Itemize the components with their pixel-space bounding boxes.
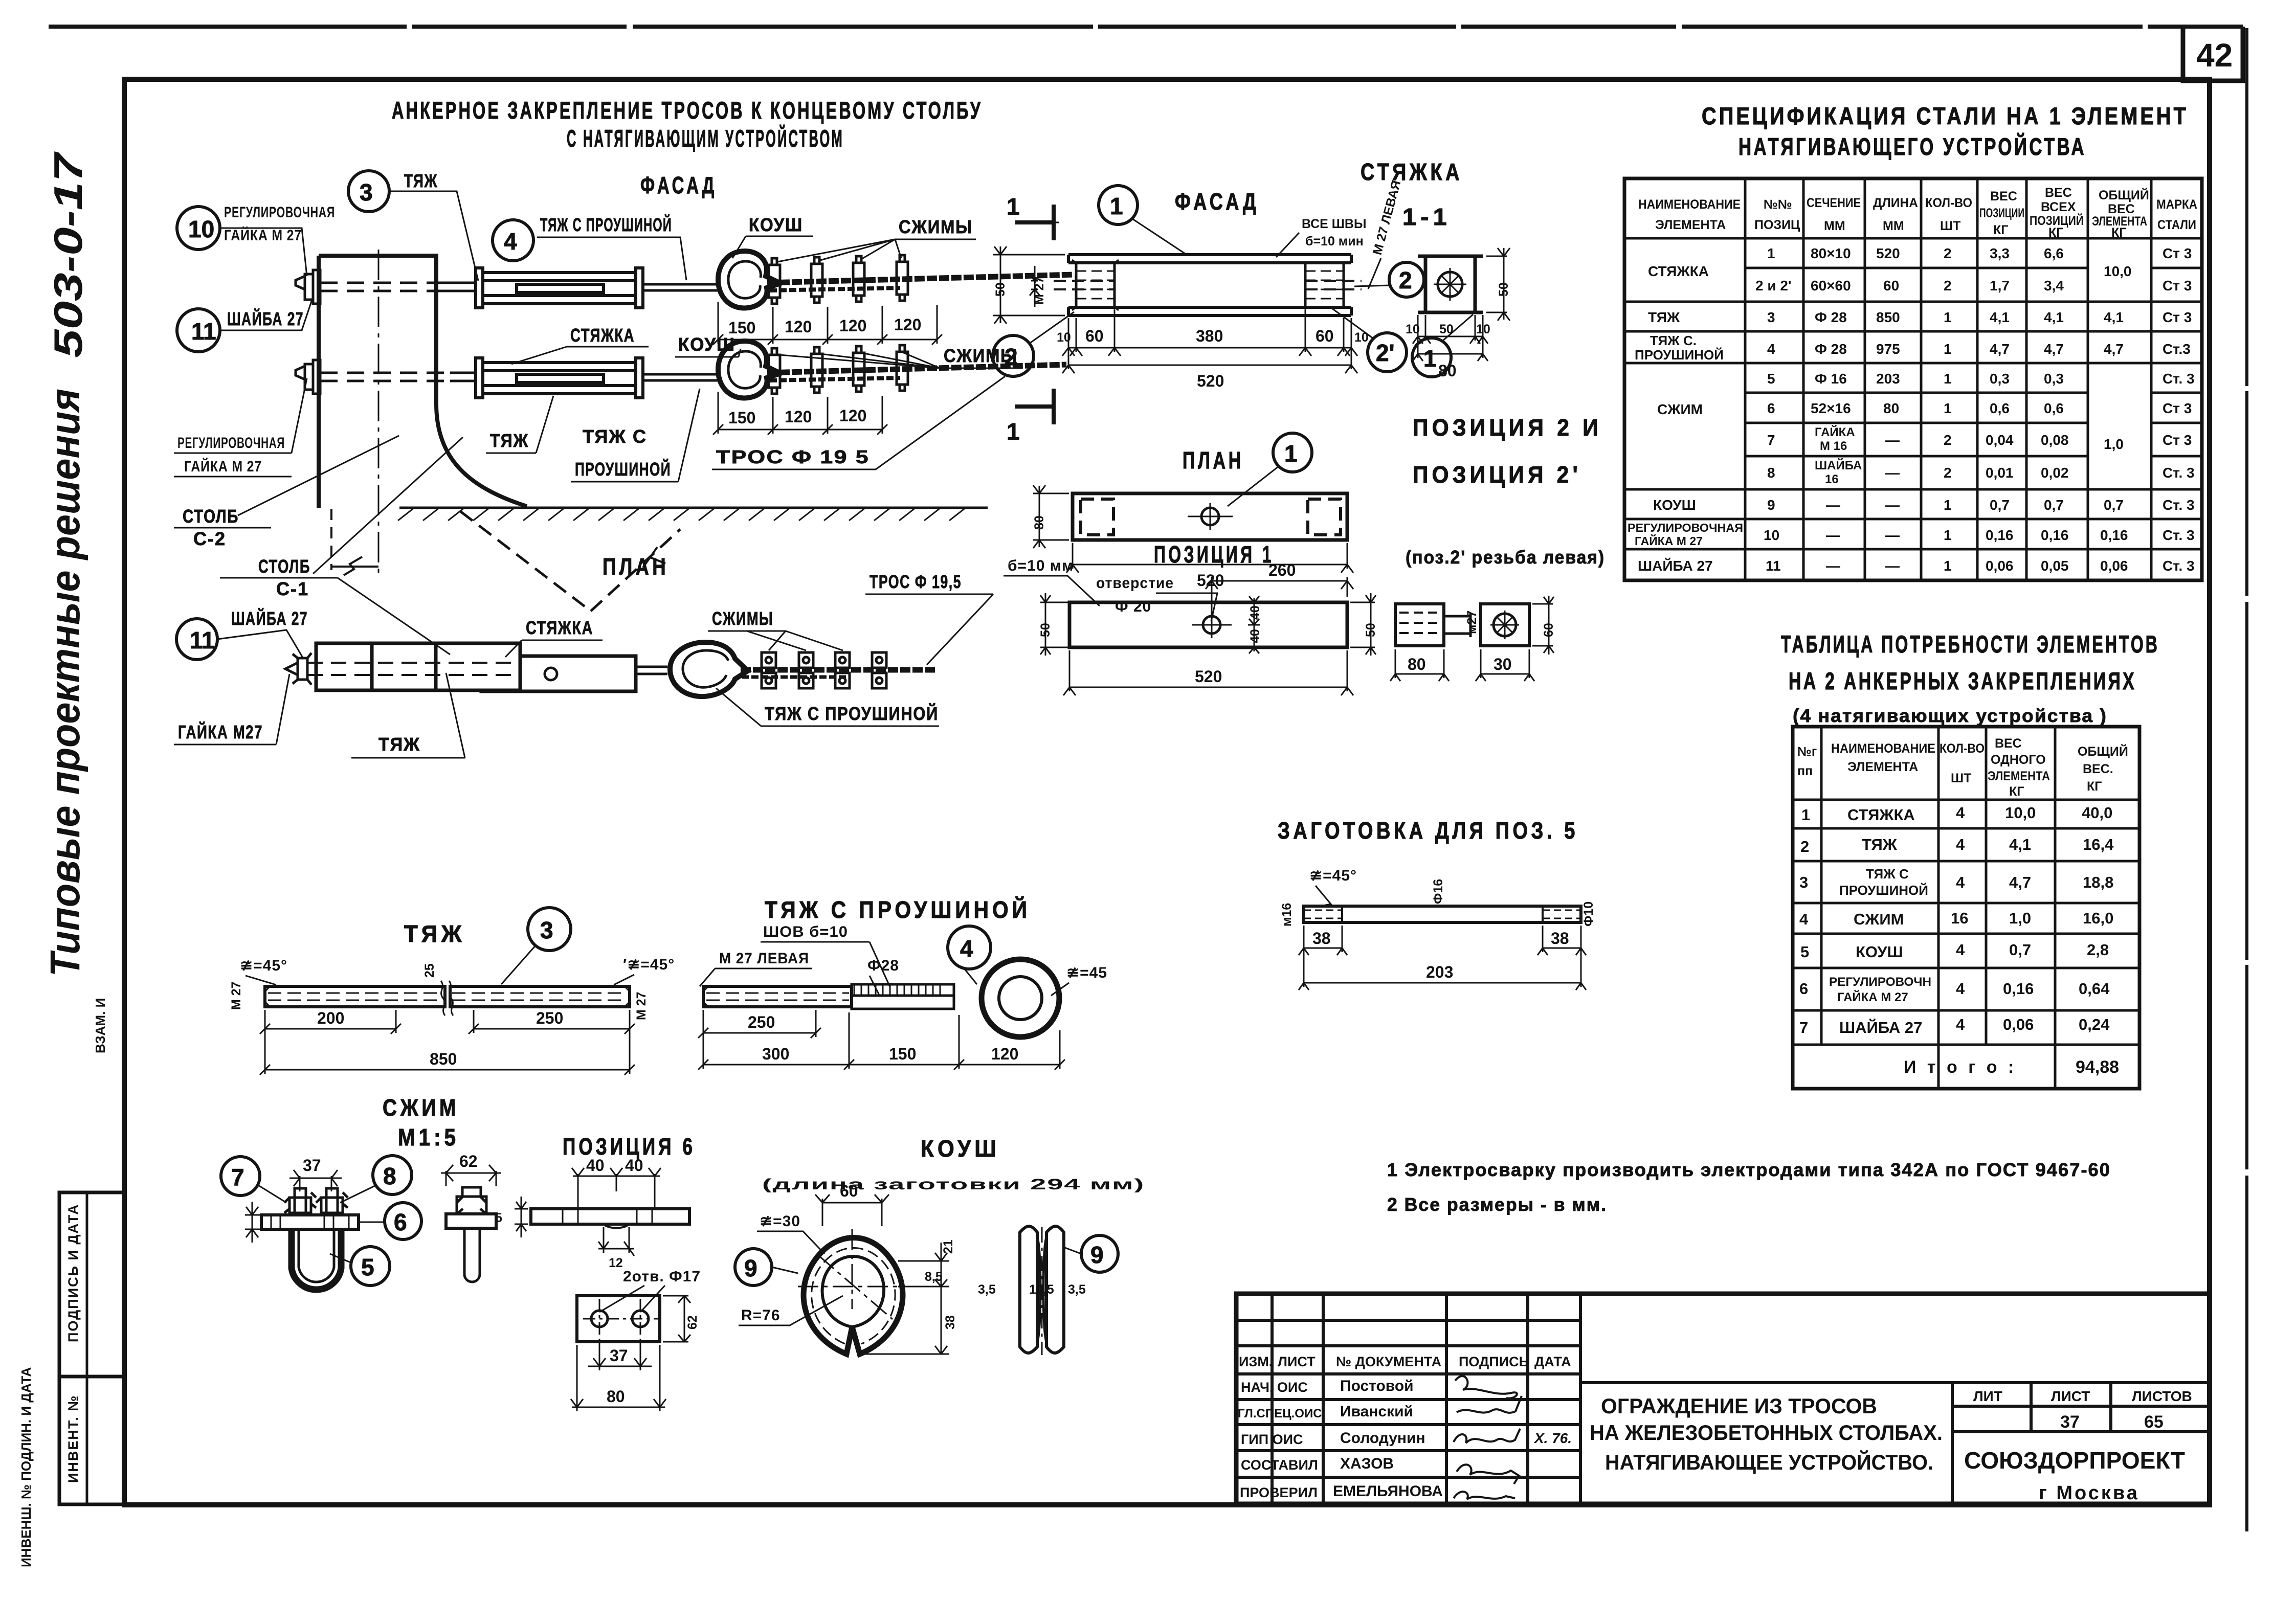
svg-text:62: 62 [459, 1152, 478, 1170]
svg-text:НАИМЕНОВАНИЕ: НАИМЕНОВАНИЕ [1831, 741, 1935, 756]
lower turnbuckle [476, 358, 643, 398]
svg-text:120: 120 [894, 315, 921, 334]
svg-text:СТАЛИ: СТАЛИ [2157, 218, 2196, 232]
svg-text:(длина заготовки 294 мм): (длина заготовки 294 мм) [762, 1176, 1145, 1193]
svg-text:СЖИМЫ: СЖИМЫ [899, 216, 973, 237]
svg-text:(поз.2' резьба левая): (поз.2' резьба левая) [1406, 547, 1605, 568]
callout circle 2 right [1389, 262, 1424, 297]
callout circle 1 styazhka [1099, 186, 1138, 224]
svg-text:ШТ: ШТ [1951, 771, 1971, 785]
dim 62 right of plate [663, 1296, 690, 1342]
svg-text:8: 8 [383, 1163, 396, 1189]
svg-text:50: 50 [1038, 623, 1053, 637]
svg-text:4,7: 4,7 [2104, 341, 2124, 357]
svg-text:0,6: 0,6 [1990, 400, 2010, 416]
svg-text:3,4: 3,4 [2044, 278, 2064, 294]
svg-text:ПОЗИЦИЯ 1: ПОЗИЦИЯ 1 [1154, 541, 1274, 568]
svg-text:Ст.3: Ст.3 [2163, 341, 2191, 357]
svg-text:6: 6 [1767, 400, 1775, 416]
svg-text:ГЛ.СПЕЦ.ОИС: ГЛ.СПЕЦ.ОИС [1238, 1407, 1322, 1420]
svg-text:4,7: 4,7 [1990, 341, 2010, 357]
svg-text:1: 1 [1944, 497, 1952, 513]
signatures (cursive squiggles) [1454, 1376, 1522, 1499]
svg-text:ОГРАЖДЕНИЕ ИЗ ТРОСОВ: ОГРАЖДЕНИЕ ИЗ ТРОСОВ [1601, 1394, 1877, 1418]
section cut marker 1 (top) [1015, 205, 1054, 240]
svg-text:2: 2 [1800, 838, 1809, 855]
svg-text:1: 1 [1944, 341, 1952, 357]
svg-text:80: 80 [1883, 400, 1899, 416]
svg-text:21: 21 [941, 1239, 955, 1254]
svg-text:ТЯЖ С: ТЯЖ С [1866, 866, 1909, 882]
svg-text:ОДНОГО: ОДНОГО [1991, 753, 2046, 767]
svg-text:НА ЖЕЛЕЗОБЕТОННЫХ СТОЛБАХ.: НА ЖЕЛЕЗОБЕТОННЫХ СТОЛБАХ. [1590, 1420, 1943, 1445]
svg-text:ВЕС.: ВЕС. [2083, 762, 2113, 776]
leader line stolb C-1 [313, 437, 463, 574]
svg-text:—: — [1885, 432, 1900, 448]
svg-text:СЖИМ: СЖИМ [383, 1094, 459, 1121]
svg-text:2: 2 [1005, 344, 1018, 370]
section 1-1 dims [1486, 248, 1510, 321]
svg-text:ПЛАН: ПЛАН [603, 553, 669, 580]
svg-text:ШАЙБА: ШАЙБА [1815, 458, 1862, 472]
svg-text:0,06: 0,06 [1986, 558, 2014, 574]
svg-text:ВСЕХ: ВСЕХ [2041, 200, 2076, 214]
svg-text:КГ: КГ [2111, 226, 2126, 240]
svg-text:4: 4 [504, 228, 517, 255]
svg-text:АНКЕРНОЕ ЗАКРЕПЛЕНИЕ ТРОСОВ: АНКЕРНОЕ ЗАКРЕПЛЕНИЕ ТРОСОВ К КОНЦЕВОМУ … [392, 97, 983, 124]
callout circle 6 [385, 1203, 421, 1239]
svg-text:9: 9 [1090, 1242, 1104, 1268]
lower cable dimension line 150 120 120 [713, 392, 887, 435]
upper rod from turnbuckle to thimble [643, 284, 718, 290]
svg-text:ГАЙКА М 27: ГАЙКА М 27 [1635, 534, 1703, 548]
svg-text:Ст 3: Ст 3 [2163, 245, 2192, 261]
koush side profile [1020, 1226, 1037, 1353]
svg-text:1 Электросварку производить: 1 Электросварку производить электродами … [1387, 1159, 2111, 1180]
svg-text:КОЛ-ВО: КОЛ-ВО [1925, 196, 1972, 210]
upper tie rod: adjusting nut and washer at left [296, 270, 320, 304]
svg-text:ОБЩИЙ: ОБЩИЙ [2099, 187, 2149, 202]
svg-text:М1:5: М1:5 [398, 1124, 459, 1151]
svg-text:520: 520 [1876, 245, 1900, 261]
svg-text:975: 975 [1876, 341, 1900, 357]
svg-text:203: 203 [1876, 371, 1900, 387]
dim 37 below holes [588, 1340, 652, 1370]
svg-text:НАТЯГИВАЮЩЕГО УСТРОЙСТВА: НАТЯГИВАЮЩЕГО УСТРОЙСТВА [1738, 133, 2086, 160]
svg-text:≇=45: ≇=45 [1066, 964, 1107, 981]
dim 80 left of plan [1033, 485, 1069, 548]
lower tie rod dashed through post [320, 373, 450, 381]
svg-text:850: 850 [430, 1050, 457, 1068]
plan: thimble teardrop [670, 642, 748, 696]
svg-text:ВЕС: ВЕС [1990, 189, 2017, 204]
callout circle 5 [351, 1247, 390, 1286]
svg-text:ВЕС: ВЕС [1995, 736, 2022, 751]
svg-text:10: 10 [1476, 322, 1490, 336]
svg-text:60: 60 [1085, 327, 1104, 345]
svg-text:0,06: 0,06 [2003, 1016, 2034, 1033]
svg-text:ТЯЖ С ПРОУШИНОЙ: ТЯЖ С ПРОУШИНОЙ [765, 703, 939, 724]
svg-text:0,16: 0,16 [1986, 527, 2014, 543]
svg-text:250: 250 [748, 1013, 775, 1031]
svg-text:ТЯЖ: ТЯЖ [1862, 836, 1898, 853]
svg-text:4,1: 4,1 [2104, 309, 2124, 325]
svg-text:80×10: 80×10 [1811, 245, 1851, 261]
svg-text:0,16: 0,16 [2041, 527, 2069, 543]
svg-text:50: 50 [1439, 322, 1454, 336]
post centerline [378, 250, 380, 575]
svg-text:10: 10 [1764, 527, 1779, 543]
svg-text:1: 1 [1423, 345, 1437, 372]
svg-text:ДАТА: ДАТА [1534, 1354, 1571, 1369]
svg-text:250: 250 [536, 1009, 563, 1027]
svg-text:ПОДПИСЬ: ПОДПИСЬ [1459, 1354, 1529, 1369]
leader from stolb C-1 to plan sleeve [338, 578, 450, 655]
svg-text:Ст 3: Ст 3 [2163, 309, 2192, 325]
svg-text:НАИМЕНОВАНИЕ: НАИМЕНОВАНИЕ [1638, 197, 1741, 212]
top outer dashed border line [49, 25, 2243, 29]
svg-text:3,5: 3,5 [978, 1282, 996, 1297]
svg-text:120: 120 [839, 317, 866, 335]
svg-text:СТЯЖКА: СТЯЖКА [1847, 806, 1915, 824]
svg-text:40: 40 [1248, 629, 1262, 643]
eye rod: welded lap zone [852, 984, 954, 996]
svg-text:3,3: 3,3 [1990, 245, 2010, 261]
leader line stolb C-2 [238, 436, 399, 515]
plan: turnbuckle body (behind sleeve) [481, 656, 636, 691]
svg-text:КОУШ: КОУШ [749, 214, 803, 235]
break dimension under post [331, 557, 378, 575]
svg-text:18,8: 18,8 [2083, 873, 2113, 891]
plan: nut at left tip [285, 653, 311, 685]
U-clamp plate [261, 1215, 359, 1229]
poz 2' block with circle [1481, 604, 1529, 646]
svg-text:2: 2 [1944, 465, 1952, 481]
spec table grid [1624, 178, 2202, 580]
callout circle 4 tyazh s proushinoj [493, 220, 533, 261]
svg-text:№№: №№ [1764, 197, 1792, 212]
callout circle 3 tyazh [348, 171, 389, 212]
svg-text:ГАЙКА: ГАЙКА [1815, 425, 1855, 439]
section 1-1 view [1425, 256, 1475, 312]
svg-text:СТЯЖКА: СТЯЖКА [1361, 159, 1463, 185]
svg-text:НА 2 АНКЕРНЫХ ЗАКРЕПЛЕНИЯХ: НА 2 АНКЕРНЫХ ЗАКРЕПЛЕНИЯХ [1789, 667, 2136, 694]
svg-text:30: 30 [1493, 655, 1512, 673]
svg-text:11: 11 [1766, 558, 1781, 574]
svg-text:ПОЗИЦИИ: ПОЗИЦИИ [1979, 206, 2024, 220]
svg-text:ПЛАН: ПЛАН [1183, 447, 1244, 473]
svg-text:0,64: 0,64 [2079, 980, 2110, 998]
dim 250 (thread) [698, 1010, 821, 1038]
svg-text:С-1: С-1 [276, 578, 309, 599]
koush dim 60 top [815, 1194, 889, 1226]
svg-text:ВЗАМ. И: ВЗАМ. И [93, 998, 108, 1053]
svg-text:ШАЙБА 27: ШАЙБА 27 [1839, 1018, 1922, 1036]
svg-text:ЛИСТ: ЛИСТ [2051, 1388, 2090, 1404]
spec table data [1628, 245, 2195, 574]
svg-text:ВЕС: ВЕС [2045, 186, 2072, 200]
title block outer [1236, 1294, 2210, 1504]
poz2' dim 60 right [1532, 596, 1554, 655]
svg-text:0,04: 0,04 [1986, 432, 2014, 448]
svg-text:4: 4 [1956, 1016, 1965, 1033]
svg-text:R=76: R=76 [741, 1307, 781, 1324]
svg-text:0,06: 0,06 [2100, 558, 2128, 574]
svg-text:4,7: 4,7 [2009, 873, 2031, 891]
svg-text:10,0: 10,0 [2005, 804, 2036, 822]
upper thimble (koush) [718, 251, 781, 308]
svg-text:ТЯЖ С: ТЯЖ С [583, 426, 647, 447]
svg-text:ШАЙБА 27: ШАЙБА 27 [1638, 557, 1713, 574]
svg-text:120: 120 [991, 1045, 1018, 1063]
svg-text:1: 1 [1110, 193, 1123, 219]
svg-text:ТЯЖ: ТЯЖ [404, 170, 438, 191]
rod segment 1 with thread [265, 986, 445, 1007]
svg-text:ПОЗИЦИЯ 2 И: ПОЗИЦИЯ 2 И [1413, 414, 1602, 441]
svg-text:НАЧ. ОИС: НАЧ. ОИС [1241, 1380, 1308, 1395]
plan: rod to thimble [636, 667, 667, 674]
plan: cable [741, 667, 936, 673]
demand table header [1797, 736, 2128, 799]
svg-text:380: 380 [1196, 327, 1223, 345]
svg-text:5: 5 [361, 1254, 374, 1280]
svg-text:10: 10 [188, 216, 214, 242]
svg-text:Ст. 3: Ст. 3 [2163, 465, 2195, 481]
svg-text:7: 7 [231, 1164, 244, 1190]
svg-text:′≇=45°: ′≇=45° [623, 956, 675, 973]
svg-text:ЕМЕЛЬЯНОВА: ЕМЕЛЬЯНОВА [1333, 1483, 1443, 1500]
svg-text:503-0-17: 503-0-17 [46, 151, 91, 358]
plan: rod dashed lines through sleeve [307, 663, 517, 675]
svg-text:Ст. 3: Ст. 3 [2163, 558, 2195, 574]
svg-text:1: 1 [1944, 558, 1952, 574]
upper turnbuckle (styazhka) [476, 268, 643, 308]
demand table grid [1793, 727, 2139, 1089]
svg-text:≇=45°: ≇=45° [1309, 867, 1357, 884]
svg-text:0,08: 0,08 [2041, 432, 2069, 448]
svg-text:ПРОВЕРИЛ: ПРОВЕРИЛ [1240, 1485, 1318, 1500]
svg-text:ГАЙКА М 27: ГАЙКА М 27 [1837, 990, 1908, 1004]
callout circle 7 [221, 1157, 260, 1196]
lower rod to thimble [643, 374, 718, 380]
zagotovka dim 203 [1299, 952, 1586, 990]
callout circle 2' [1368, 333, 1407, 372]
svg-text:2 Все размеры - в мм.: 2 Все размеры - в мм. [1387, 1194, 1607, 1215]
svg-text:3: 3 [360, 179, 373, 206]
callout circle 2 left [993, 335, 1034, 376]
svg-text:≇=45°: ≇=45° [240, 957, 287, 974]
svg-text:60: 60 [840, 1182, 858, 1200]
svg-text:9: 9 [744, 1255, 757, 1281]
svg-text:120: 120 [785, 318, 812, 336]
koush dims right [863, 1243, 949, 1354]
svg-text:ШАЙБА 27: ШАЙБА 27 [231, 607, 308, 629]
svg-text:СТОЛБ: СТОЛБ [258, 556, 310, 577]
rod dashed inside styazhka left [1054, 281, 1115, 289]
main object title text [1590, 1388, 2192, 1504]
lower thimble [718, 341, 781, 398]
svg-text:НАТЯГИВАЮЩЕЕ УСТРОЙСТВО.: НАТЯГИВАЮЩЕЕ УСТРОЙСТВО. [1605, 1450, 1933, 1474]
svg-text:КГ: КГ [2009, 784, 2024, 799]
svg-text:ММ: ММ [1883, 219, 1904, 233]
svg-text:2: 2 [1944, 432, 1952, 448]
svg-text:11: 11 [190, 627, 215, 653]
dim 200 [260, 1010, 401, 1034]
svg-text:7: 7 [1767, 432, 1775, 448]
svg-text:СЖИМ: СЖИМ [1854, 910, 1904, 928]
svg-text:ЛИСТ: ЛИСТ [1278, 1354, 1316, 1369]
svg-text:0,05: 0,05 [2041, 558, 2069, 574]
svg-text:16: 16 [1825, 472, 1839, 486]
svg-text:0,3: 0,3 [1990, 371, 2010, 387]
svg-text:11: 11 [191, 318, 216, 345]
svg-text:М 27: М 27 [1032, 276, 1046, 305]
plan: cable clamps (pairs of plates) [762, 652, 886, 688]
svg-text:Солодунин: Солодунин [1340, 1430, 1425, 1447]
svg-text:4,7: 4,7 [2044, 341, 2064, 357]
svg-text:5: 5 [1767, 371, 1775, 387]
styazhka plan plate [1073, 493, 1347, 540]
svg-text:ИЗМ.: ИЗМ. [1239, 1354, 1273, 1369]
svg-text:М 27 ЛЕВАЯ: М 27 ЛЕВАЯ [719, 950, 809, 967]
page number box 42 [2183, 27, 2243, 81]
upper tie rod dashed through post [320, 283, 439, 291]
svg-text:60: 60 [1883, 278, 1899, 294]
callout circle 11 washer [177, 309, 220, 352]
svg-text:ТЯЖ: ТЯЖ [404, 920, 465, 947]
svg-text:4: 4 [1956, 980, 1965, 998]
dim 520 under styazhka [1062, 365, 1357, 373]
U-clamp bolts and nuts [284, 1188, 348, 1215]
svg-text:Ст. 3: Ст. 3 [2163, 527, 2195, 543]
left stamp box: invent no [59, 1377, 124, 1504]
svg-text:0,01: 0,01 [1986, 465, 2014, 481]
poz2' dim 30 below [1476, 649, 1534, 681]
svg-text:Ст. 3: Ст. 3 [2163, 371, 2195, 387]
svg-text:0,7: 0,7 [2044, 497, 2064, 513]
svg-text:≇=30: ≇=30 [760, 1213, 800, 1230]
section cut marker 1 (bottom) [1015, 389, 1054, 424]
svg-text:СТОЛБ: СТОЛБ [183, 506, 239, 527]
svg-text:1: 1 [1284, 440, 1298, 467]
dim 12 below [598, 1227, 634, 1256]
svg-text:16: 16 [1951, 909, 1968, 927]
svg-text:0,7: 0,7 [2104, 497, 2124, 513]
svg-text:ТЯЖ: ТЯЖ [1648, 309, 1680, 325]
svg-text:1,0: 1,0 [2104, 436, 2124, 452]
svg-text:Типовые проектные решения: Типовые проектные решения [42, 389, 88, 977]
svg-text:—: — [1885, 558, 1900, 574]
rod segment 2 with thread [450, 986, 630, 1007]
svg-text:Иванский: Иванский [1340, 1403, 1413, 1420]
svg-text:ПОЗИЦИЯ 2': ПОЗИЦИЯ 2' [1413, 461, 1581, 488]
svg-text:ШОВ б=10: ШОВ б=10 [763, 923, 848, 940]
svg-text:ЭЛЕМЕНТА: ЭЛЕМЕНТА [1655, 218, 1726, 232]
svg-text:СЖИМЫ: СЖИМЫ [712, 608, 773, 629]
svg-text:1: 1 [1944, 400, 1952, 416]
svg-text:4,1: 4,1 [2044, 309, 2064, 325]
svg-text:150: 150 [728, 409, 755, 427]
svg-text:б=10 мм: б=10 мм [1008, 557, 1074, 574]
svg-text:3,5: 3,5 [1068, 1282, 1086, 1297]
svg-text:1: 1 [1007, 418, 1020, 445]
svg-text:СОЮЗДОРПРОЕКТ: СОЮЗДОРПРОЕКТ [1964, 1447, 2185, 1474]
svg-text:—: — [1885, 527, 1900, 543]
svg-text:КОЛ-ВО: КОЛ-ВО [1940, 741, 1985, 756]
svg-text:37: 37 [610, 1346, 628, 1365]
svg-text:Ф28: Ф28 [867, 957, 899, 974]
svg-text:9: 9 [1767, 497, 1775, 513]
svg-text:0,02: 0,02 [2041, 465, 2069, 481]
right outer border line [2245, 28, 2248, 1531]
small dim left of plate [245, 1202, 260, 1243]
svg-text:СОСТАВИЛ: СОСТАВИЛ [1241, 1457, 1318, 1473]
dim 520 below plan [1066, 543, 1353, 573]
svg-text:Ф10: Ф10 [1581, 901, 1596, 927]
svg-text:7: 7 [1799, 1019, 1808, 1036]
poz2 dim 80 below [1390, 649, 1449, 681]
svg-text:ТРОС Ф 19,5: ТРОС Ф 19,5 [870, 571, 962, 592]
svg-text:ЭЛЕМЕНТА: ЭЛЕМЕНТА [1847, 760, 1918, 774]
svg-text:10: 10 [1406, 322, 1420, 336]
svg-text:СЖИМ: СЖИМ [1657, 401, 1703, 417]
svg-text:0,7: 0,7 [2009, 941, 2031, 959]
svg-text:2 и 2': 2 и 2' [1755, 278, 1792, 294]
svg-text:40: 40 [1248, 605, 1262, 620]
dims under styazhka facade: 10 60 380 60 10 [1062, 309, 1357, 369]
svg-text:СЕЧЕНИЕ: СЕЧЕНИЕ [1807, 196, 1861, 210]
svg-text:СТЯЖКА: СТЯЖКА [526, 617, 593, 638]
svg-text:6: 6 [394, 1209, 407, 1235]
center hole plan [1201, 508, 1219, 525]
svg-text:КОУШ: КОУШ [1856, 943, 1903, 961]
svg-text:2: 2 [1944, 245, 1952, 261]
svg-text:отверстие: отверстие [1096, 575, 1174, 592]
svg-text:60: 60 [1542, 623, 1556, 637]
svg-text:г Москва: г Москва [2039, 1482, 2139, 1504]
svg-text:62: 62 [685, 1315, 700, 1329]
svg-text:ШТ: ШТ [1940, 219, 1960, 233]
dim 850 overall [260, 1033, 635, 1075]
svg-text:0,16: 0,16 [2003, 980, 2034, 998]
svg-text:2,8: 2,8 [2087, 941, 2109, 959]
svg-text:№ ДОКУМЕНТА: № ДОКУМЕНТА [1336, 1354, 1441, 1369]
svg-text:150: 150 [889, 1045, 916, 1063]
svg-text:Ст 3: Ст 3 [2163, 278, 2192, 294]
poz 2 block with thread and stud [1395, 604, 1444, 646]
svg-text:СТЯЖКА: СТЯЖКА [570, 325, 635, 346]
svg-text:ШАЙБА 27: ШАЙБА 27 [227, 308, 304, 329]
svg-text:С НАТЯГИВАЮЩИМ УСТРОЙСТВОМ: С НАТЯГИВАЮЩИМ УСТРОЙСТВОМ [567, 125, 844, 152]
svg-text:203: 203 [1426, 963, 1453, 981]
svg-text:3: 3 [1799, 873, 1808, 891]
svg-text:120: 120 [785, 408, 812, 426]
svg-text:50: 50 [1364, 623, 1378, 637]
vertical dim 50 + M27 left [993, 246, 1065, 324]
buried anchor dashed lines [460, 511, 680, 611]
plan: rod sleeve block [316, 643, 520, 690]
svg-text:94,88: 94,88 [2076, 1057, 2119, 1077]
svg-text:16,4: 16,4 [2083, 836, 2114, 853]
svg-text:1: 1 [1944, 527, 1952, 543]
svg-text:ДЛИНА: ДЛИНА [1873, 196, 1918, 210]
callout circle 10 regulating nut [177, 207, 220, 250]
svg-text:КГ: КГ [2048, 226, 2063, 240]
svg-text:2: 2 [1944, 278, 1952, 294]
svg-text:0,7: 0,7 [1990, 497, 2010, 513]
svg-text:1-1: 1-1 [1402, 204, 1451, 230]
poz1 dim 260 top [1206, 577, 1353, 614]
